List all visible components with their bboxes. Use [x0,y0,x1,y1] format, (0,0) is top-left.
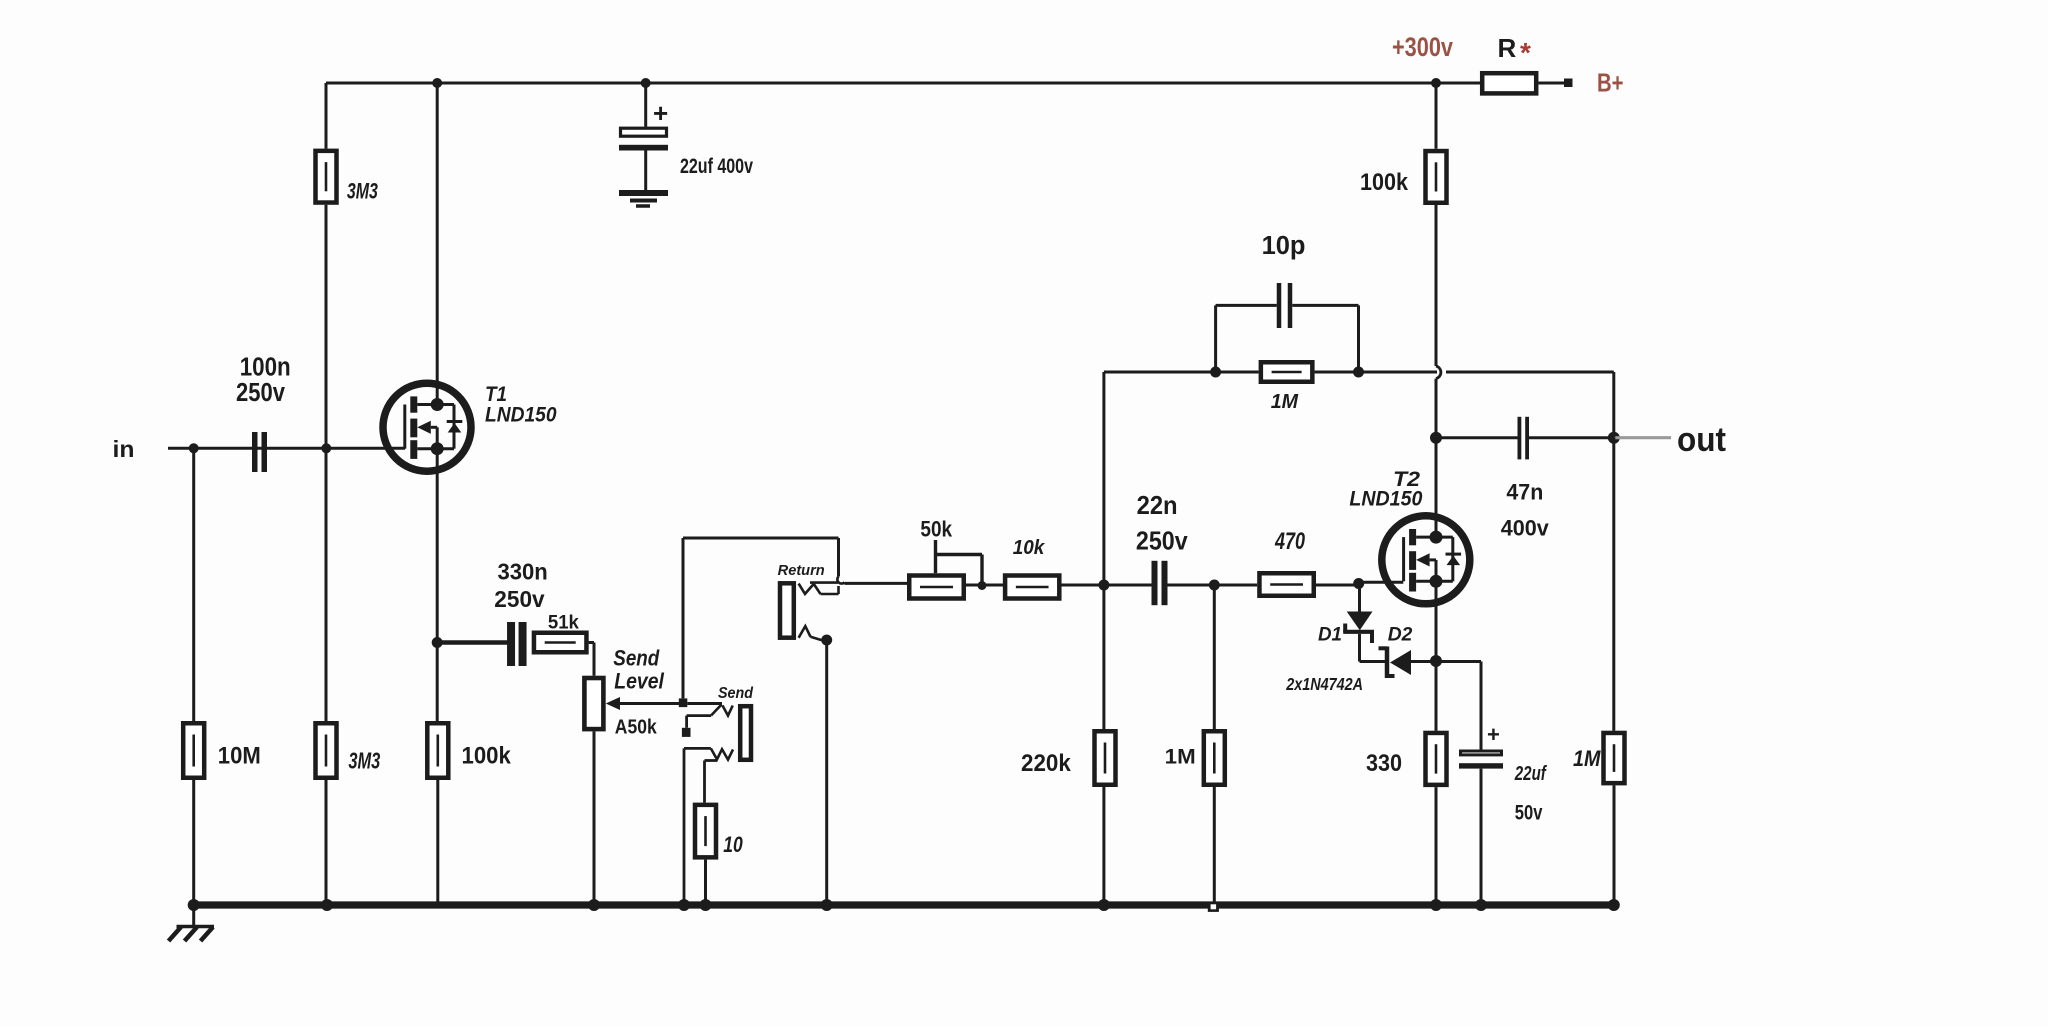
svg-text:330n: 330n [498,558,548,584]
svg-text:50k: 50k [920,517,952,542]
svg-text:100k: 100k [1360,169,1409,196]
svg-text:in: in [113,436,135,462]
svg-text:10p: 10p [1262,232,1306,260]
svg-text:B+: B+ [1597,70,1624,98]
svg-text:470: 470 [1274,528,1305,555]
svg-text:1M: 1M [1573,746,1601,771]
svg-text:*: * [1520,37,1531,68]
svg-text:100n: 100n [240,354,291,382]
svg-text:250v: 250v [494,586,544,612]
svg-text:250v: 250v [236,379,286,407]
svg-text:22uf: 22uf [1514,763,1548,785]
svg-text:10k: 10k [1013,537,1045,559]
svg-text:10M: 10M [218,743,261,770]
svg-text:D2: D2 [1388,623,1413,645]
svg-text:50v: 50v [1515,802,1543,825]
svg-text:Send: Send [613,646,660,671]
svg-text:10: 10 [723,832,743,857]
svg-text:250v: 250v [1136,526,1188,556]
svg-text:LND150: LND150 [485,403,557,427]
svg-text:220k: 220k [1021,750,1071,777]
svg-text:22uf 400v: 22uf 400v [680,155,753,178]
svg-text:2x1N4742A: 2x1N4742A [1285,674,1363,694]
svg-text:330: 330 [1366,750,1402,777]
svg-text:Return: Return [778,563,825,579]
svg-text:3M3: 3M3 [347,178,378,203]
svg-text:22n: 22n [1137,490,1178,520]
svg-text:A50k: A50k [615,716,657,739]
svg-text:400v: 400v [1501,516,1549,541]
svg-text:+: + [653,98,668,128]
svg-text:1M: 1M [1165,746,1196,769]
svg-text:51k: 51k [548,613,579,634]
svg-text:out: out [1677,421,1726,459]
svg-text:LND150: LND150 [1349,487,1422,511]
svg-text:100k: 100k [462,743,512,770]
svg-text:D1: D1 [1318,623,1342,645]
svg-text:1M: 1M [1271,391,1300,413]
svg-text:+: + [1487,722,1500,747]
svg-text:+300v: +300v [1392,32,1453,62]
svg-text:R: R [1498,33,1517,63]
svg-text:47n: 47n [1506,480,1543,505]
svg-text:Level: Level [614,669,664,694]
svg-text:3M3: 3M3 [348,748,380,774]
svg-text:Send: Send [718,685,754,702]
